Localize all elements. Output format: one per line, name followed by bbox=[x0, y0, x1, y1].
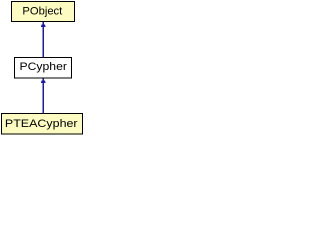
inheritance arrow PTEACypher to PCypher: head mid row bbox=[42, 80, 45, 81]
class inheritance diagram bbox=[0, 0, 86, 136]
background bbox=[0, 0, 86, 136]
inheritance arrow PTEACypher to PCypher: stem bbox=[43, 83, 44, 114]
class box PObject bbox=[12, 2, 75, 22]
class box PCypher bbox=[15, 58, 72, 79]
svg-text:PTEACypher: PTEACypher bbox=[5, 118, 78, 130]
inheritance arrow PCypher to PObject: head neck bbox=[43, 22, 44, 24]
inheritance arrow PCypher to PObject: head base row bbox=[41, 26, 46, 28]
svg-text:PObject: PObject bbox=[22, 5, 62, 17]
inheritance arrow PCypher to PObject: head mid row bbox=[42, 24, 45, 25]
inheritance arrow PTEACypher to PCypher: head neck bbox=[43, 79, 44, 81]
inheritance arrow PCypher to PObject: stem bbox=[43, 27, 44, 57]
class box PTEACypher bbox=[2, 114, 83, 135]
svg-text:PCypher: PCypher bbox=[20, 61, 68, 73]
inheritance arrow PTEACypher to PCypher: head base row bbox=[41, 82, 46, 83]
